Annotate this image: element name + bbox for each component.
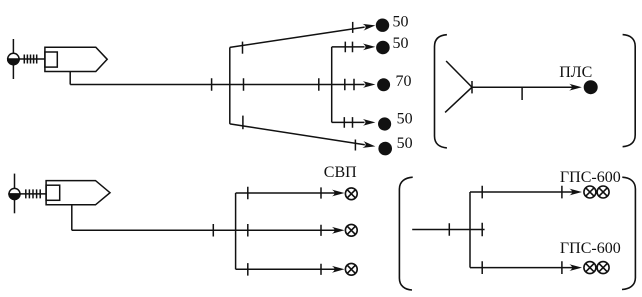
svg-text:ГПС-600: ГПС-600 — [560, 240, 621, 257]
svg-text:СВП: СВП — [324, 164, 357, 181]
svg-text:50: 50 — [393, 13, 409, 30]
svg-text:50: 50 — [393, 35, 409, 52]
svg-text:50: 50 — [397, 111, 413, 128]
svg-text:ГПС-600: ГПС-600 — [560, 169, 621, 186]
svg-text:50: 50 — [397, 135, 413, 152]
svg-text:70: 70 — [396, 73, 412, 90]
svg-text:ПЛС: ПЛС — [559, 64, 592, 81]
